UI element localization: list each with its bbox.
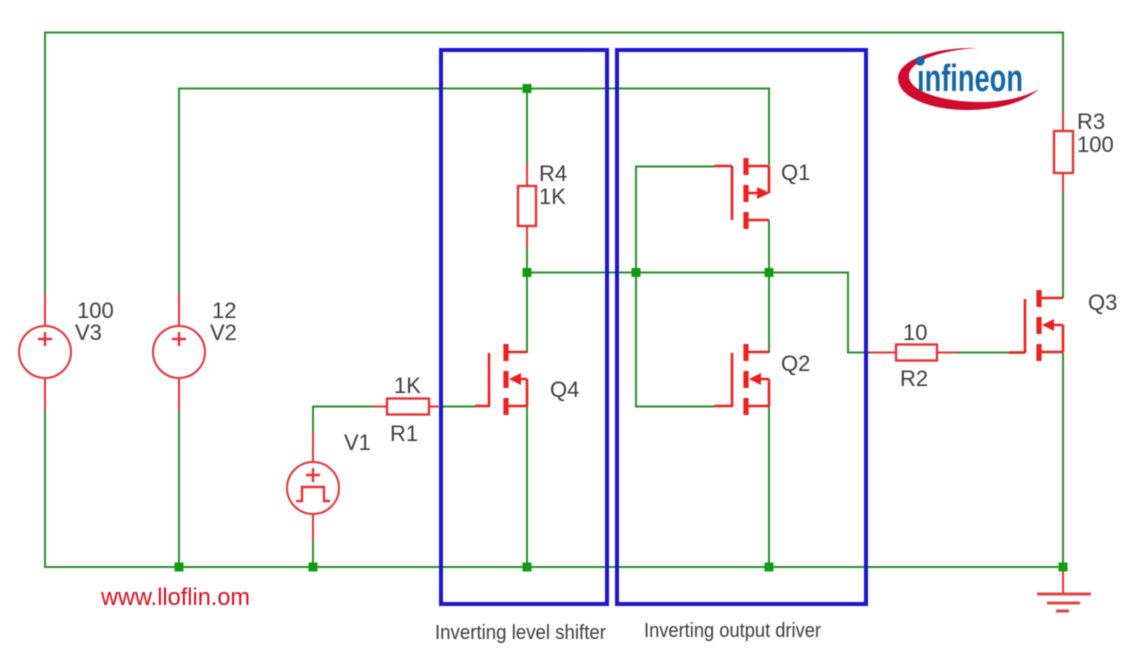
svg-text:V1: V1	[344, 430, 371, 455]
svg-text:Q2: Q2	[781, 351, 810, 376]
svg-text:1K: 1K	[539, 184, 566, 209]
svg-text:Q3: Q3	[1088, 290, 1117, 315]
svg-text:www.lloflin.om: www.lloflin.om	[100, 584, 250, 611]
svg-text:10: 10	[903, 320, 927, 345]
svg-text:Inverting level shifter: Inverting level shifter	[435, 622, 606, 644]
svg-text:ınfineon: ınfineon	[917, 58, 1023, 100]
svg-text:R2: R2	[900, 366, 928, 391]
svg-text:V2: V2	[210, 320, 237, 345]
svg-text:V3: V3	[75, 320, 102, 345]
svg-text:R4: R4	[539, 161, 567, 186]
svg-text:Q1: Q1	[781, 160, 810, 185]
svg-text:100: 100	[1077, 132, 1114, 157]
svg-text:Q4: Q4	[550, 377, 579, 402]
svg-text:Inverting output driver: Inverting output driver	[644, 620, 821, 642]
svg-text:R3: R3	[1077, 109, 1105, 134]
svg-text:1K: 1K	[394, 373, 421, 398]
svg-text:R1: R1	[390, 421, 418, 446]
